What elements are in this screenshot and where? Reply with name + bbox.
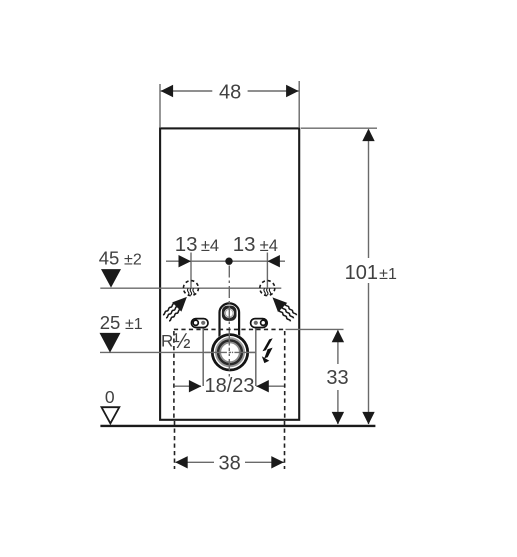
svg-text:101: 101 (345, 262, 378, 284)
svg-text:25: 25 (100, 312, 121, 333)
svg-text:45: 45 (99, 248, 120, 269)
svg-text:48: 48 (219, 82, 241, 104)
svg-text:18/23: 18/23 (204, 375, 254, 397)
svg-text:±1: ±1 (125, 316, 143, 333)
svg-text:±1: ±1 (379, 266, 397, 283)
svg-text:13: 13 (233, 233, 256, 256)
svg-text:33: 33 (326, 367, 348, 389)
svg-text:13: 13 (175, 233, 198, 256)
svg-text:R: R (161, 331, 173, 350)
svg-text:±2: ±2 (124, 252, 142, 269)
svg-text:±4: ±4 (260, 237, 278, 255)
svg-text:0: 0 (105, 387, 115, 407)
svg-text:±4: ±4 (201, 237, 219, 255)
svg-text:38: 38 (218, 453, 240, 475)
svg-text:½: ½ (173, 330, 191, 353)
